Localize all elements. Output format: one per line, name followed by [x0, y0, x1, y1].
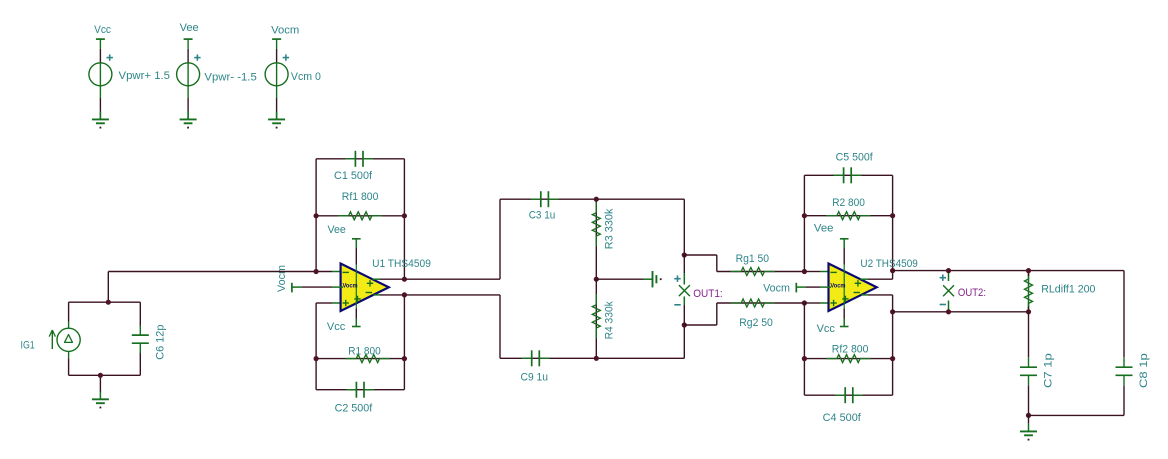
- ground (mid node): [644, 271, 662, 287]
- label C2 500f: [335, 403, 374, 415]
- svg-text:R1 800: R1 800: [348, 345, 381, 357]
- wire mid node to ground: [596, 278, 643, 280]
- ground (Vocm source): [268, 111, 285, 128]
- label C8 1p: [1138, 353, 1150, 388]
- svg-text:Vpwr- -1.5: Vpwr- -1.5: [204, 72, 256, 84]
- wire right riser top: [683, 199, 685, 255]
- junction dot IG1 bottom rail: [98, 373, 103, 378]
- label RLdiff1 200: [1041, 284, 1095, 296]
- svg-text:Vee: Vee: [180, 22, 199, 34]
- wire U1 upper-left column: [315, 159, 317, 272]
- junction dot R2 right: [890, 213, 895, 218]
- svg-text:Vpwr+ 1.5: Vpwr+ 1.5: [119, 70, 171, 82]
- svg-text:Rf2 800: Rf2 800: [832, 344, 869, 356]
- svg-text:C2 500f: C2 500f: [335, 403, 374, 415]
- capacitor C5: [833, 167, 861, 183]
- junction dot U2 + input: [802, 300, 807, 305]
- wire C8 column top: [1123, 271, 1125, 358]
- svg-text:Vocm: Vocm: [276, 265, 288, 292]
- wire U1 + input: [316, 302, 343, 304]
- label OUT2:: [958, 287, 986, 299]
- label Rf1 800: [342, 191, 379, 203]
- resistor R4: [592, 279, 600, 358]
- svg-text:C7 1p: C7 1p: [1043, 353, 1055, 388]
- junction dot Rf2 right: [890, 356, 895, 361]
- wire riser to C3 rail: [499, 199, 501, 279]
- junction dot OUT2 bottom: [946, 309, 951, 314]
- wire C9 rail: [500, 357, 684, 359]
- svg-text:C8 1p: C8 1p: [1138, 353, 1150, 388]
- ground (IG1): [92, 391, 109, 408]
- label R2 800: [832, 197, 865, 209]
- wire U1 lower-left column: [315, 303, 317, 390]
- label Rf2 800: [832, 344, 869, 356]
- junction dot U1 output+: [402, 277, 407, 282]
- wire U1 upper-right column: [403, 159, 405, 279]
- current source IG1: [21, 322, 81, 359]
- label C7 1p: [1043, 353, 1055, 388]
- capacitor C1: [345, 151, 373, 167]
- svg-text:OUT1:: OUT1:: [693, 288, 723, 300]
- label U1 THS4509: [372, 258, 431, 270]
- junction dot R1 left: [314, 356, 319, 361]
- label Rg2 50: [739, 317, 773, 329]
- wire C5 rail: [804, 174, 892, 176]
- svg-text:Rg2 50: Rg2 50: [739, 317, 773, 329]
- wire C7 column: [1028, 312, 1030, 357]
- capacitor C3: [531, 191, 559, 207]
- svg-text:Vocm: Vocm: [271, 25, 299, 37]
- junction dot U2 inverting input: [802, 269, 807, 274]
- svg-text:Vee: Vee: [814, 223, 834, 235]
- svg-text:Vee: Vee: [328, 224, 346, 236]
- wire OUT2 bottom rail: [893, 311, 1029, 313]
- junction dot U2 output- branch: [890, 309, 895, 314]
- label C6 12p: [155, 325, 167, 360]
- wire bottom rail: [1029, 414, 1125, 416]
- junction dot mid node: [594, 277, 599, 282]
- svg-text:Vcc: Vcc: [327, 321, 346, 333]
- svg-text:C4 500f: C4 500f: [823, 412, 862, 424]
- wire U2 - input stub: [804, 271, 831, 273]
- junction dot ground node: [1026, 413, 1031, 418]
- label R4 330k: [603, 301, 615, 340]
- wire riser to C9 rail: [499, 295, 501, 358]
- op-amp U2 THS4509: [829, 239, 877, 327]
- label U2 THS4509: [860, 258, 917, 270]
- capacitor C6: [132, 302, 149, 375]
- voltmeter OUT1: [674, 255, 690, 325]
- svg-text:Vocm: Vocm: [343, 283, 358, 290]
- resistor R3: [592, 199, 600, 279]
- junction dot IG1 top rail: [106, 300, 111, 305]
- wire C4 rail: [804, 394, 892, 396]
- wire U1 output+: [372, 278, 500, 280]
- svg-text:U1 THS4509: U1 THS4509: [372, 258, 431, 270]
- svg-text:Vcm 0: Vcm 0: [291, 71, 321, 83]
- label Vee (U2): [814, 223, 834, 235]
- junction dot Rf2 left: [802, 356, 807, 361]
- junction dot RLdiff1 bottom: [1026, 309, 1031, 314]
- voltmeter OUT2: [940, 271, 954, 312]
- wire U2 output+: [860, 278, 892, 280]
- label OUT1:: [693, 288, 723, 300]
- junction dot R2 left: [802, 213, 807, 218]
- svg-text:IG1: IG1: [21, 339, 35, 351]
- wire C1 rail: [316, 158, 404, 160]
- wire U1 output-: [373, 294, 500, 296]
- resistor R2: [804, 212, 892, 220]
- terminal Vocm (U1): [292, 283, 343, 293]
- svg-text:R2 800: R2 800: [832, 197, 865, 209]
- junction dot R1 right: [402, 356, 407, 361]
- junction dot R4 bottom: [594, 356, 599, 361]
- label Vcc (U2): [817, 323, 836, 335]
- wire IG1 top lead: [68, 302, 70, 321]
- label Vocm (U2): [763, 282, 790, 294]
- wire Rg1 branch: [684, 255, 717, 272]
- voltage source Vcm (Vocm): [265, 25, 321, 120]
- resistor Rg2: [717, 299, 805, 307]
- junction dot Rf1 left: [314, 213, 319, 218]
- junction dot RLdiff1 top: [1026, 268, 1031, 273]
- svg-text:C6 12p: C6 12p: [155, 325, 167, 360]
- label R1 800: [348, 345, 381, 357]
- label C4 500f: [823, 412, 862, 424]
- junction dot U1 inverting input: [314, 269, 319, 274]
- label Vocm (U1 terminal, rotated): [276, 265, 288, 292]
- junction dot R3 top: [594, 197, 599, 202]
- junction dot U1 output-: [402, 292, 407, 297]
- junction dot OUT1 top: [682, 252, 687, 257]
- junction dot Rf1 right: [402, 213, 407, 218]
- capacitor C4: [835, 387, 863, 403]
- wire C7 to ground node: [1028, 385, 1030, 415]
- wire U2 lower-right column: [892, 295, 894, 395]
- voltage source Vpwr- (Vee): [177, 22, 257, 119]
- svg-text:Vcc: Vcc: [817, 323, 836, 335]
- label Vcc (U1): [327, 321, 346, 333]
- ground (load): [1020, 423, 1037, 440]
- svg-text:R4 330k: R4 330k: [603, 301, 615, 340]
- label C5 500f: [836, 152, 874, 164]
- wire right riser bottom: [683, 325, 685, 358]
- voltage source Vpwr+ (Vcc): [89, 24, 170, 119]
- capacitor C2: [346, 382, 374, 398]
- resistor Rf1: [316, 212, 404, 220]
- wire main input: [108, 271, 343, 273]
- svg-text:Vocm: Vocm: [763, 282, 790, 294]
- svg-text:C1 500f: C1 500f: [334, 170, 373, 182]
- resistor R1: [316, 355, 404, 363]
- label C3 1u: [529, 210, 556, 222]
- wire C3 rail: [500, 198, 684, 200]
- wire Rg2 branch: [684, 303, 717, 325]
- svg-text:Rg1 50: Rg1 50: [736, 253, 770, 265]
- junction dot OUT2 top: [946, 268, 951, 273]
- wire load ground stub: [1028, 415, 1030, 423]
- wire U2 upper-right column: [892, 175, 894, 279]
- wire C2 rail: [316, 389, 404, 391]
- capacitor C9: [522, 350, 550, 366]
- label R3 330k: [603, 208, 615, 249]
- op-amp U1 THS4509: [341, 239, 389, 327]
- svg-text:C9 1u: C9 1u: [521, 371, 549, 383]
- svg-text:Vcc: Vcc: [94, 24, 111, 36]
- wire U1 lower-right column: [403, 295, 405, 390]
- label Rg1 50: [736, 253, 770, 265]
- resistor Rf2: [804, 355, 892, 363]
- resistor RLdiff1: [1025, 271, 1033, 312]
- node input riser: [107, 272, 109, 303]
- label C1 500f: [334, 170, 373, 182]
- wire U2 upper-left column: [803, 175, 805, 271]
- svg-text:C5 500f: C5 500f: [836, 152, 874, 164]
- capacitor C8: [1116, 357, 1133, 385]
- label Vee (U1): [328, 224, 346, 236]
- wire IG1 bottom rail: [69, 374, 141, 376]
- terminal Vocm (U2): [796, 283, 831, 293]
- wire IG1 ground stub: [99, 375, 101, 392]
- svg-text:C3 1u: C3 1u: [529, 210, 556, 222]
- svg-text:OUT2:: OUT2:: [958, 287, 986, 299]
- ground (Vcc source): [92, 111, 109, 128]
- svg-text:Rf1 800: Rf1 800: [342, 191, 379, 203]
- wire IG1 top rail: [69, 301, 141, 303]
- wire U2 output-: [861, 294, 892, 296]
- svg-text:U2 THS4509: U2 THS4509: [860, 258, 917, 270]
- svg-text:R3 330k: R3 330k: [603, 208, 615, 249]
- svg-text:Vocm: Vocm: [830, 283, 845, 290]
- wire C8 column bottom: [1123, 385, 1125, 415]
- wire U2 lower-left column: [803, 303, 805, 395]
- wire IG1 bottom lead: [68, 358, 70, 375]
- ground (Vee source): [180, 111, 197, 128]
- resistor Rg1: [717, 268, 805, 276]
- wire OUT2 top rail: [893, 270, 1124, 272]
- junction dot U2 output+ branch: [890, 268, 895, 273]
- wire U2 + input stub: [804, 302, 831, 304]
- junction dot OUT1 bottom: [682, 322, 687, 327]
- label C9 1u: [521, 371, 549, 383]
- svg-text:RLdiff1 200: RLdiff1 200: [1041, 284, 1095, 296]
- capacitor C7: [1020, 357, 1037, 385]
